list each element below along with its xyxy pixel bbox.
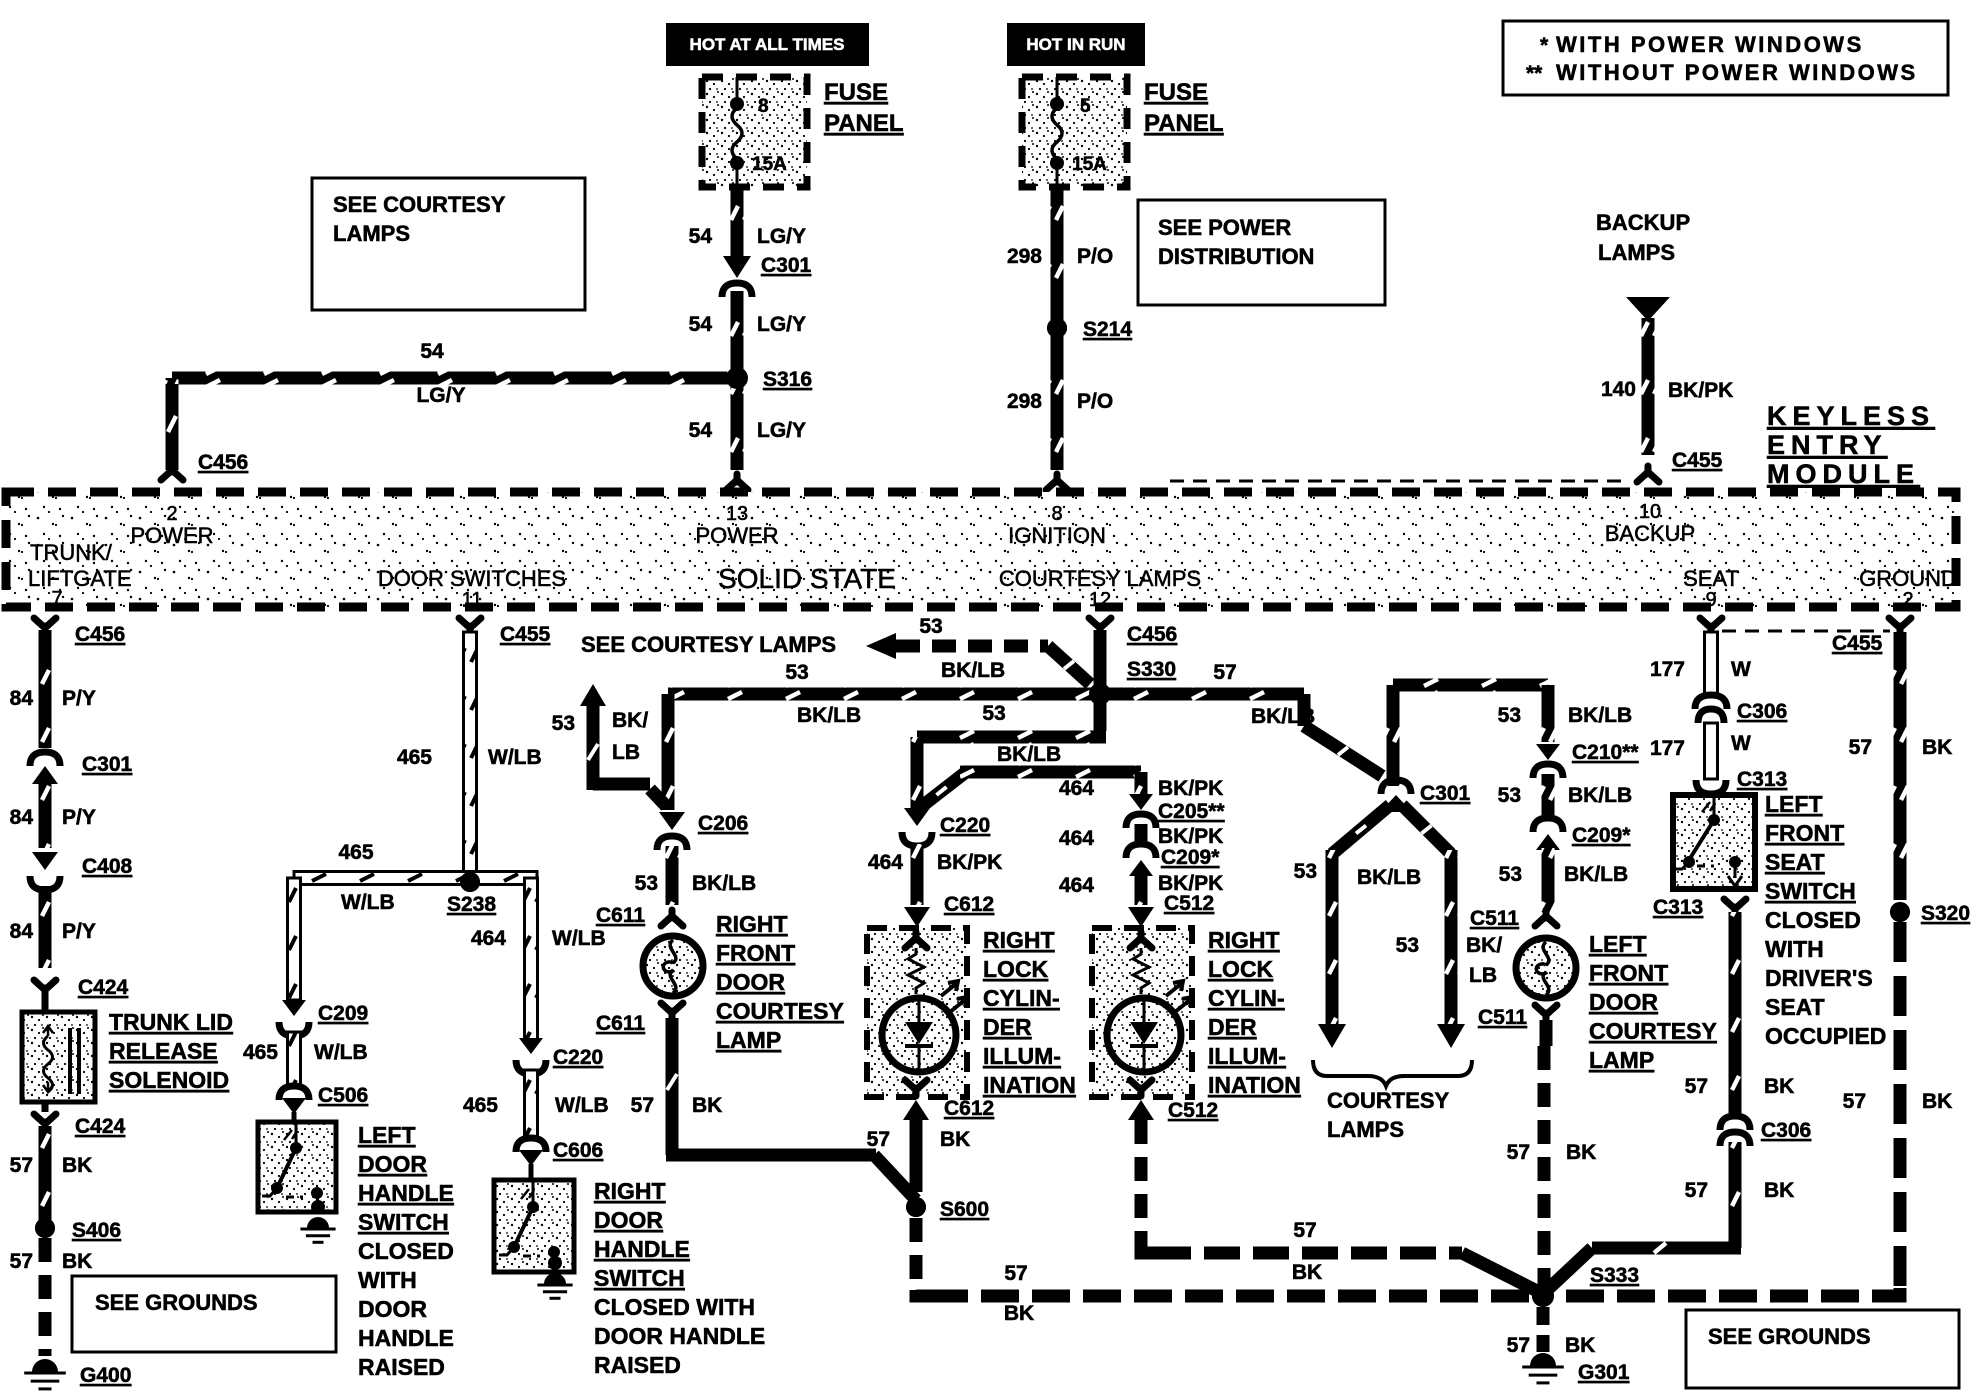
- svg-text:57: 57: [1213, 661, 1236, 684]
- svg-text:WITH: WITH: [1765, 936, 1824, 962]
- wire 84 P/Y C408 to C424: [10, 886, 96, 968]
- svg-text:BK/PK: BK/PK: [1158, 777, 1223, 800]
- splice S330: [1089, 630, 1176, 705]
- svg-text:COURTESY: COURTESY: [1327, 1088, 1450, 1113]
- connector C306 (lower): [1720, 1116, 1811, 1146]
- svg-text:C306: C306: [1761, 1119, 1811, 1142]
- connector C611 below lamp: [596, 1003, 683, 1035]
- wire 177 W pin9 to C306 (hollow): [1650, 632, 1751, 697]
- svg-text:W: W: [1731, 658, 1751, 681]
- svg-text:BK/LB: BK/LB: [997, 743, 1061, 766]
- fuse F2 (fuse panel, 15A, cavity 5): [1022, 77, 1127, 187]
- module SEAT pin 9 label: [1683, 566, 1739, 611]
- svg-text:DOOR: DOOR: [358, 1296, 427, 1322]
- module TRUNK/LIFTGATE pin 7 label: [28, 540, 132, 610]
- svg-text:12: 12: [1089, 589, 1111, 611]
- connector C424 (bottom): [34, 1102, 126, 1138]
- label LEFT DOOR HANDLE SWITCH CLOSED WITH DOOR HANDLE RAISED: [358, 1122, 454, 1380]
- connector C209 (left door): [279, 1000, 368, 1036]
- svg-text:LAMP: LAMP: [1589, 1047, 1654, 1073]
- svg-text:13: 13: [726, 503, 748, 525]
- svg-text:LG/Y: LG/Y: [757, 313, 806, 336]
- wire 465 W/LB C220 to C606: [463, 1070, 609, 1138]
- svg-text:C456: C456: [198, 451, 248, 474]
- svg-text:BK: BK: [1566, 1141, 1596, 1164]
- svg-text:TRUNK/: TRUNK/: [30, 540, 113, 565]
- svg-text:S316: S316: [763, 368, 812, 391]
- svg-text:84: 84: [10, 806, 34, 829]
- svg-text:RIGHT: RIGHT: [983, 927, 1055, 953]
- connector C220 (right door): [516, 1038, 603, 1074]
- splice S214: [1047, 318, 1132, 341]
- svg-text:DOOR SWITCHES: DOOR SWITCHES: [378, 566, 566, 591]
- label BACKUP LAMPS with feed triangle: [1596, 210, 1690, 321]
- wire 465 W/LB C209 to C506: [243, 1032, 368, 1086]
- svg-text:57: 57: [1685, 1075, 1708, 1098]
- keyless entry module box (dashed, stippled): [6, 492, 1956, 607]
- svg-text:G301: G301: [1578, 1361, 1630, 1384]
- svg-text:84: 84: [10, 920, 34, 943]
- ground G400: [24, 1359, 131, 1389]
- wire 57 BK C306 to S333: [1545, 1142, 1794, 1292]
- dashed arrow SEE COURTESY LAMPS (53 BK/LB): [581, 615, 1090, 684]
- svg-text:W/LB: W/LB: [552, 927, 606, 950]
- module pin 8 IGNITION label: [1008, 503, 1106, 548]
- label RIGHT LOCK CYLINDER ILLUMINATION 1: [983, 927, 1076, 1098]
- svg-text:CLOSED WITH: CLOSED WITH: [594, 1294, 755, 1320]
- svg-text:S333: S333: [1590, 1264, 1639, 1287]
- svg-text:SEE POWER: SEE POWER: [1158, 215, 1291, 240]
- left door handle switch: [258, 1122, 336, 1214]
- svg-text:GROUND: GROUND: [1859, 566, 1957, 591]
- svg-text:POWER: POWER: [695, 523, 778, 548]
- svg-text:C209*: C209*: [1161, 846, 1220, 869]
- svg-text:COURTESY: COURTESY: [1589, 1018, 1717, 1044]
- svg-text:BK: BK: [1764, 1179, 1794, 1202]
- svg-text:7: 7: [51, 588, 62, 610]
- svg-text:HANDLE: HANDLE: [594, 1236, 690, 1262]
- label LEFT FRONT DOOR COURTESY LAMP: [1589, 931, 1717, 1073]
- banner HOT IN RUN: [1007, 23, 1145, 66]
- svg-text:W/LB: W/LB: [314, 1041, 368, 1064]
- svg-text:54: 54: [689, 313, 713, 336]
- svg-text:BK/PK: BK/PK: [937, 851, 1002, 874]
- svg-text:CYLIN-: CYLIN-: [983, 985, 1060, 1011]
- svg-text:BK: BK: [692, 1094, 722, 1117]
- svg-text:BK/LB: BK/LB: [1568, 784, 1632, 807]
- right door handle switch: [494, 1180, 574, 1272]
- svg-text:464: 464: [1059, 874, 1094, 897]
- svg-text:DRIVER'S: DRIVER'S: [1765, 965, 1873, 991]
- wire 57 BK C424 to S406: [10, 1126, 93, 1220]
- wire 464 BK/PK C209* to C512: [1059, 872, 1223, 927]
- svg-text:LAMPS: LAMPS: [1598, 240, 1675, 265]
- up arrow to courtesy lamps (53 BK/LB): [552, 684, 666, 806]
- svg-text:ILLUM-: ILLUM-: [1208, 1043, 1286, 1069]
- svg-text:464: 464: [868, 851, 903, 874]
- svg-text:57: 57: [631, 1094, 654, 1117]
- svg-text:LAMPS: LAMPS: [333, 221, 410, 246]
- svg-text:57: 57: [10, 1154, 33, 1177]
- svg-text:57: 57: [1685, 1179, 1708, 1202]
- svg-text:BK/LB: BK/LB: [1564, 863, 1628, 886]
- svg-text:PANEL: PANEL: [824, 110, 904, 137]
- note box SEE GROUNDS (left): [72, 1276, 336, 1352]
- svg-text:BK/LB: BK/LB: [692, 872, 756, 895]
- svg-text:P/O: P/O: [1077, 390, 1113, 413]
- svg-text:FUSE: FUSE: [824, 79, 888, 106]
- svg-text:P/Y: P/Y: [62, 920, 96, 943]
- svg-text:54: 54: [689, 419, 713, 442]
- svg-text:WITH: WITH: [358, 1267, 417, 1293]
- svg-text:ILLUM-: ILLUM-: [983, 1043, 1061, 1069]
- connector C612 below lamp 1: [867, 1097, 995, 1192]
- right front door courtesy lamp: [643, 936, 703, 996]
- svg-text:177: 177: [1650, 737, 1685, 760]
- svg-text:P/O: P/O: [1077, 245, 1113, 268]
- connector C206: [657, 812, 748, 850]
- wire 464 BK/PK C205 to C209*: [1059, 824, 1223, 876]
- wire into right door handle switch: [529, 1164, 534, 1182]
- svg-text:S330: S330: [1127, 658, 1176, 681]
- wire 298 P/O from S214 to module pin 8: [1007, 336, 1113, 490]
- svg-text:HOT AT ALL TIMES: HOT AT ALL TIMES: [690, 35, 845, 54]
- svg-text:LIFTGATE: LIFTGATE: [28, 566, 132, 591]
- connector C301 (trunk wire): [30, 752, 133, 784]
- connector C506: [279, 1084, 368, 1114]
- svg-text:RIGHT: RIGHT: [1208, 927, 1280, 953]
- svg-text:54: 54: [420, 340, 444, 363]
- svg-text:84: 84: [10, 687, 34, 710]
- ground at left door handle switch: [307, 1217, 329, 1228]
- svg-text:BK/LB: BK/LB: [1568, 704, 1632, 727]
- svg-text:53: 53: [1499, 863, 1522, 886]
- svg-text:LG/Y: LG/Y: [416, 384, 465, 407]
- svg-text:SEE GROUNDS: SEE GROUNDS: [95, 1290, 258, 1315]
- svg-text:DER: DER: [983, 1014, 1032, 1040]
- svg-text:BK: BK: [1764, 1075, 1794, 1098]
- svg-text:53: 53: [552, 712, 575, 735]
- wire 298 P/O from fuse F2 to S214: [1007, 187, 1113, 320]
- svg-text:IGNITION: IGNITION: [1008, 523, 1106, 548]
- svg-text:SEE GROUNDS: SEE GROUNDS: [1708, 1324, 1871, 1349]
- svg-text:BACKUP: BACKUP: [1605, 521, 1695, 546]
- svg-text:C456: C456: [1127, 623, 1177, 646]
- svg-text:DOOR HANDLE: DOOR HANDLE: [594, 1323, 765, 1349]
- svg-text:C611: C611: [596, 1012, 645, 1035]
- left front door courtesy lamp: [1466, 934, 1576, 998]
- wire 53 BK/LB C209* to C511: [1470, 848, 1628, 930]
- wire 57 BK lamp to S600: [631, 1018, 916, 1200]
- svg-text:57: 57: [1004, 1262, 1027, 1285]
- wire 465 W/LB pin11 to S238 (hollow): [397, 632, 542, 876]
- svg-text:SWITCH: SWITCH: [358, 1209, 449, 1235]
- svg-text:LEFT: LEFT: [358, 1122, 416, 1148]
- svg-text:8: 8: [1051, 503, 1062, 525]
- module DOOR SWITCHES pin 11 label: [378, 566, 566, 611]
- wire 465 W/LB S238 branch left: [288, 841, 538, 1000]
- svg-text:C313: C313: [1653, 896, 1703, 919]
- svg-text:POWER: POWER: [130, 523, 213, 548]
- svg-text:BK/PK: BK/PK: [1158, 825, 1223, 848]
- svg-text:54: 54: [689, 225, 713, 248]
- svg-text:LG/Y: LG/Y: [757, 419, 806, 442]
- svg-text:57: 57: [1849, 736, 1872, 759]
- svg-text:57: 57: [1507, 1141, 1530, 1164]
- svg-text:C455: C455: [1672, 449, 1723, 472]
- splice S316: [727, 368, 812, 391]
- svg-text:C313: C313: [1737, 768, 1787, 791]
- svg-text:FRONT: FRONT: [1765, 820, 1844, 846]
- svg-text:140: 140: [1601, 378, 1636, 401]
- connector C456 below module pin 7: [34, 618, 125, 646]
- svg-text:465: 465: [338, 841, 373, 864]
- svg-text:CYLIN-: CYLIN-: [1208, 985, 1285, 1011]
- svg-text:BK: BK: [1292, 1261, 1322, 1284]
- svg-text:BK: BK: [1565, 1334, 1595, 1357]
- svg-text:C612: C612: [944, 893, 994, 916]
- svg-text:LEFT: LEFT: [1589, 931, 1647, 957]
- svg-text:SEAT: SEAT: [1765, 994, 1825, 1020]
- wire 57 BK/LB from S330 right to C301: [1106, 661, 1382, 776]
- svg-text:W: W: [1731, 732, 1751, 755]
- right lock cylinder illumination lamp 2 (dashed box): [1092, 928, 1192, 1097]
- right lock cylinder illumination lamp 1 (dashed box): [867, 928, 967, 1097]
- svg-text:177: 177: [1650, 658, 1685, 681]
- svg-text:C606: C606: [553, 1139, 603, 1162]
- svg-text:BK: BK: [62, 1250, 92, 1273]
- wire 464 W/LB S238 branch right: [471, 878, 606, 1040]
- module pin 2 POWER label: [130, 503, 213, 548]
- connector C606: [516, 1138, 603, 1166]
- module pin 13 POWER label: [695, 503, 778, 548]
- svg-text:RIGHT: RIGHT: [594, 1178, 666, 1204]
- svg-text:15A: 15A: [1072, 154, 1107, 175]
- connector C306 (seat): [1695, 695, 1787, 723]
- wire into left door handle switch: [292, 1112, 297, 1124]
- connector C455 edge (dashed) at module top: [1170, 480, 1624, 483]
- svg-text:C408: C408: [82, 855, 133, 878]
- wire 464 BK/PK C220 to C612: [868, 844, 1002, 927]
- svg-text:298: 298: [1007, 245, 1042, 268]
- connector C456 below module pin 12: [1089, 618, 1177, 646]
- svg-text:C424: C424: [78, 976, 129, 999]
- svg-text:C511: C511: [1478, 1006, 1527, 1029]
- wire 84 P/Y C301 to C408: [10, 784, 96, 848]
- wire 57 BK left lamp to S333 (dashed): [1507, 1020, 1597, 1286]
- svg-text:HOT IN RUN: HOT IN RUN: [1026, 35, 1125, 54]
- ground G301: [1522, 1353, 1629, 1384]
- svg-text:2: 2: [166, 503, 177, 525]
- label KEYLESS ENTRY MODULE: [1767, 401, 1935, 489]
- svg-text:465: 465: [243, 1041, 278, 1064]
- svg-text:LG/Y: LG/Y: [757, 225, 806, 248]
- svg-text:W/LB: W/LB: [341, 891, 395, 914]
- connector C408: [30, 852, 133, 890]
- svg-text:SEAT: SEAT: [1765, 849, 1825, 875]
- svg-text:C455: C455: [1832, 632, 1883, 655]
- svg-text:MODULE: MODULE: [1767, 459, 1920, 489]
- wire 54 LG/Y C301 to S316: [689, 291, 806, 370]
- wire 57 BK S320 to S333 (dashed): [1566, 922, 1952, 1296]
- svg-text:SEAT: SEAT: [1683, 566, 1739, 591]
- svg-text:465: 465: [397, 746, 432, 769]
- svg-text:LAMPS: LAMPS: [1327, 1117, 1404, 1142]
- svg-text:S238: S238: [447, 893, 496, 916]
- svg-text:C209: C209: [318, 1002, 368, 1025]
- connector C301 (fuse feed): [722, 254, 812, 297]
- svg-text:BACKUP: BACKUP: [1596, 210, 1690, 235]
- svg-text:53: 53: [1498, 784, 1521, 807]
- label TRUNK LID RELEASE SOLENOID: [109, 1009, 233, 1093]
- svg-text:DOOR: DOOR: [358, 1151, 427, 1177]
- svg-text:DOOR: DOOR: [1589, 989, 1658, 1015]
- svg-text:C206: C206: [698, 812, 748, 835]
- svg-text:WITH POWER WINDOWS: WITH POWER WINDOWS: [1556, 32, 1864, 57]
- wire 53 BK/LB branch to second lock cylinder: [917, 766, 1225, 829]
- svg-text:53: 53: [1396, 934, 1419, 957]
- wire 53 BK/LB C210 to C209*: [1498, 774, 1633, 820]
- svg-text:DOOR: DOOR: [716, 969, 785, 995]
- wire 53 BK/LB C301 to courtesy lamp arrows: [1294, 795, 1465, 1048]
- left front seat switch: [1673, 795, 1755, 889]
- svg-text:C301: C301: [761, 254, 812, 277]
- svg-text:P/Y: P/Y: [62, 806, 96, 829]
- svg-text:9: 9: [1705, 589, 1716, 611]
- svg-text:W/LB: W/LB: [555, 1094, 609, 1117]
- svg-text:15A: 15A: [752, 154, 787, 175]
- svg-text:PANEL: PANEL: [1144, 110, 1224, 137]
- label FUSE PANEL (right): [1144, 79, 1224, 137]
- svg-text:5: 5: [1080, 96, 1091, 117]
- splice S406: [35, 1218, 121, 1242]
- svg-text:BK/LB: BK/LB: [1357, 866, 1421, 889]
- svg-text:BK: BK: [940, 1128, 970, 1151]
- svg-text:C306: C306: [1737, 700, 1787, 723]
- svg-text:SEE COURTESY: SEE COURTESY: [333, 192, 506, 217]
- svg-text:53: 53: [1498, 704, 1521, 727]
- svg-text:BK: BK: [1922, 1090, 1952, 1113]
- svg-text:FUSE: FUSE: [1144, 79, 1208, 106]
- splice dots (overlay): [35, 318, 1910, 1307]
- svg-text:DISTRIBUTION: DISTRIBUTION: [1158, 244, 1314, 269]
- svg-text:57: 57: [1843, 1090, 1866, 1113]
- wire 84 P/Y pin7 to C301: [10, 630, 96, 748]
- svg-text:RELEASE: RELEASE: [109, 1038, 218, 1064]
- svg-text:P/Y: P/Y: [62, 687, 96, 710]
- svg-text:SEE COURTESY LAMPS: SEE COURTESY LAMPS: [581, 632, 836, 657]
- note box WITH/WITHOUT POWER WINDOWS: [1503, 21, 1948, 95]
- svg-text:BK/LB: BK/LB: [797, 704, 861, 727]
- splice S238: [447, 872, 496, 916]
- svg-text:OCCUPIED: OCCUPIED: [1765, 1023, 1886, 1049]
- wire 57 BK S333 to G301 (dashed): [1507, 1307, 1596, 1357]
- note box SEE GROUNDS (right): [1686, 1310, 1959, 1388]
- svg-text:**: **: [1526, 62, 1543, 85]
- svg-text:BK: BK: [62, 1154, 92, 1177]
- note box SEE COURTESY LAMPS: [312, 178, 585, 310]
- svg-text:C512: C512: [1164, 892, 1214, 915]
- svg-text:BK/: BK/: [1466, 934, 1502, 957]
- label RIGHT FRONT DOOR COURTESY LAMP: [716, 911, 844, 1053]
- svg-text:53: 53: [982, 702, 1005, 725]
- connector C301 (courtesy feed): [1381, 780, 1471, 805]
- svg-text:C611: C611: [596, 904, 645, 927]
- label LEFT FRONT SEAT SWITCH CLOSED WITH DRIVERS SEAT OCCUPIED: [1765, 791, 1886, 1049]
- label RIGHT LOCK CYLINDER ILLUMINATION 2: [1208, 927, 1301, 1098]
- svg-text:KEYLESS: KEYLESS: [1767, 401, 1935, 431]
- connector C424 (top): [34, 976, 129, 1012]
- svg-text:COURTESY: COURTESY: [716, 998, 844, 1024]
- banner HOT AT ALL TIMES: [666, 23, 869, 66]
- svg-text:C301: C301: [1420, 782, 1471, 805]
- svg-text:RAISED: RAISED: [594, 1352, 681, 1378]
- svg-text:C220: C220: [553, 1046, 603, 1069]
- module pin 10 BACKUP label: [1605, 501, 1695, 546]
- svg-text:53: 53: [635, 872, 658, 895]
- svg-text:57: 57: [867, 1128, 890, 1151]
- svg-text:BK: BK: [1922, 736, 1952, 759]
- svg-text:57: 57: [1293, 1219, 1316, 1242]
- svg-text:C506: C506: [318, 1084, 368, 1107]
- svg-text:8: 8: [758, 96, 769, 117]
- wire 57 BK seat switch to C306: [1685, 912, 1795, 1114]
- connector C455 below module pins 9 and 2 (dashed edge): [1700, 618, 1911, 655]
- wire 54 LG/Y from S316 to module pin 13: [689, 378, 806, 490]
- svg-text:C205**: C205**: [1158, 800, 1225, 823]
- wire 57 BK module ground pin to S320: [1849, 632, 1953, 900]
- svg-text:DOOR: DOOR: [594, 1207, 663, 1233]
- svg-text:C511: C511: [1470, 907, 1519, 930]
- svg-text:S320: S320: [1921, 902, 1970, 925]
- svg-text:C210**: C210**: [1572, 741, 1639, 764]
- label FUSE PANEL (left): [824, 79, 904, 137]
- svg-text:LAMP: LAMP: [716, 1027, 781, 1053]
- svg-text:LEFT: LEFT: [1765, 791, 1823, 817]
- svg-text:BK/PK: BK/PK: [1668, 379, 1733, 402]
- svg-text:FRONT: FRONT: [1589, 960, 1668, 986]
- connector C511 below lamp: [1478, 1005, 1557, 1029]
- svg-text:S406: S406: [72, 1219, 121, 1242]
- svg-text:C220: C220: [940, 814, 990, 837]
- svg-text:BK/: BK/: [612, 709, 648, 732]
- wire 140 BK/PK backup lamps to C455: [1601, 318, 1733, 482]
- svg-text:RAISED: RAISED: [358, 1354, 445, 1380]
- connector C209* (left door): [1533, 818, 1631, 850]
- svg-text:C209*: C209*: [1572, 824, 1631, 847]
- connector C313 below seat switch: [1653, 896, 1746, 919]
- svg-text:HANDLE: HANDLE: [358, 1325, 454, 1351]
- svg-text:BK/LB: BK/LB: [941, 659, 1005, 682]
- svg-text:CLOSED: CLOSED: [358, 1238, 454, 1264]
- brace and label COURTESY LAMPS: [1313, 1060, 1472, 1142]
- label RIGHT DOOR HANDLE SWITCH CLOSED WITH DOOR HANDLE RAISED: [594, 1178, 765, 1378]
- svg-text:SOLENOID: SOLENOID: [109, 1067, 229, 1093]
- svg-text:G400: G400: [80, 1364, 131, 1387]
- fuse F1 (fuse panel, 15A, cavity 8): [702, 77, 807, 187]
- svg-text:2: 2: [1902, 589, 1913, 611]
- connector C455 below module pin 11: [459, 618, 551, 646]
- svg-text:298: 298: [1007, 390, 1042, 413]
- svg-text:W/LB: W/LB: [488, 746, 542, 769]
- svg-text:LB: LB: [1469, 964, 1497, 987]
- ground at right door handle switch: [544, 1273, 566, 1284]
- svg-text:LB: LB: [612, 741, 640, 764]
- splice S320: [1890, 902, 1970, 925]
- svg-text:C612: C612: [944, 1097, 994, 1120]
- svg-text:SWITCH: SWITCH: [594, 1265, 685, 1291]
- wire 54 LG/Y branch from S316 left to C456 (power pin 2): [161, 340, 737, 480]
